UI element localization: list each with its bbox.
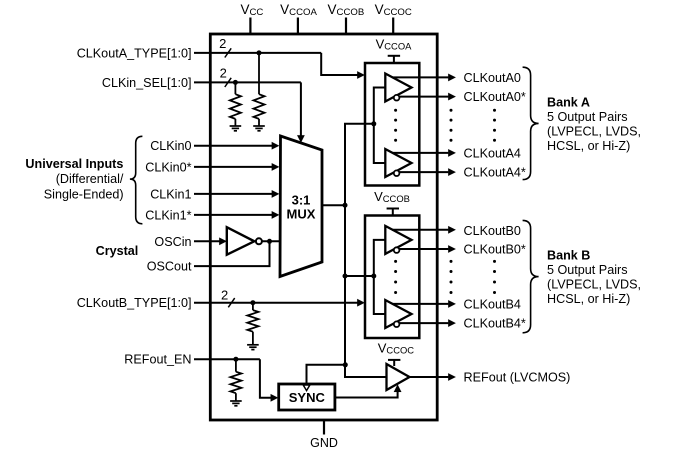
svg-text:SYNC: SYNC — [289, 390, 326, 405]
buffer B4 — [385, 300, 411, 328]
svg-text:5 Output Pairs: 5 Output Pairs — [547, 110, 628, 124]
svg-text:CLKoutA4: CLKoutA4 — [464, 146, 521, 160]
svg-text:OSCout: OSCout — [147, 260, 192, 274]
junction Bank B bus — [371, 274, 376, 279]
junction rail-SYNC — [343, 362, 348, 367]
wire CLKin1 — [194, 193, 273, 195]
wire Bank A input bus — [374, 88, 386, 164]
svg-text:(LVPECL, LVDS,: (LVPECL, LVDS, — [547, 278, 641, 292]
ground symbol — [247, 344, 259, 346]
pulldown resistor on CLKoutA_TYPE — [258, 53, 260, 94]
ellipsis Bank A buffers — [394, 109, 397, 112]
ground pin GND — [323, 420, 325, 435]
svg-text:3:1: 3:1 — [292, 192, 311, 207]
wire CLKoutA_TYPE elbow to Bank A — [321, 53, 358, 75]
wire CLKoutB0* — [399, 248, 448, 250]
svg-text:CLKoutA4*: CLKoutA4* — [464, 166, 526, 180]
ellipsis Bank A labels — [493, 109, 496, 112]
wire CLKoutA4 — [392, 152, 448, 154]
junction on CLKoutA_TYPE — [257, 50, 262, 55]
wire CLKoutB4* — [399, 322, 448, 324]
power pin VCCOB — [345, 18, 347, 35]
junction rail-MUX — [343, 203, 348, 208]
svg-text:GND: GND — [310, 436, 338, 450]
open arrowhead SYNC clock — [303, 385, 310, 391]
wire CLKin_SEL elbow to MUX select — [300, 82, 302, 136]
ground symbol — [230, 400, 242, 402]
junction on CLKoutB_TYPE — [250, 300, 255, 305]
svg-text:(Differential/: (Differential/ — [56, 172, 124, 186]
brace Bank A — [523, 67, 539, 179]
ellipsis Bank A arrows — [450, 109, 453, 112]
bus width 2 marker — [225, 48, 231, 57]
ellipsis Bank B arrows — [450, 260, 453, 263]
svg-text:CLKoutA0*: CLKoutA0* — [464, 90, 526, 104]
svg-text:HCSL, or Hi-Z): HCSL, or Hi-Z) — [547, 139, 630, 153]
pulldown resistor on CLKoutB_TYPE — [252, 303, 254, 310]
Bank A output buffer block — [365, 63, 419, 186]
wire clock rail — [345, 124, 387, 377]
junction oscillator node — [267, 239, 272, 244]
wire CLKin1* — [194, 214, 273, 216]
svg-text:CLKin0: CLKin0 — [150, 139, 191, 153]
svg-text:2: 2 — [220, 66, 227, 81]
svg-text:MUX: MUX — [287, 207, 316, 222]
wire CLKoutA0 — [392, 76, 448, 78]
mux 3:1 U1 — [280, 136, 322, 277]
svg-text:2: 2 — [219, 36, 226, 51]
buffer A4 — [385, 149, 411, 177]
bus width 2 marker — [225, 78, 231, 87]
wire MUX output — [322, 204, 345, 206]
svg-text:OSCin: OSCin — [154, 235, 191, 249]
wire CLKin_SEL — [194, 81, 301, 83]
svg-text:Universal Inputs: Universal Inputs — [25, 157, 123, 171]
brace Bank B — [523, 220, 539, 332]
brace Universal Inputs — [130, 136, 143, 224]
wire SYNC output to REFout buffer — [335, 391, 398, 398]
ellipsis Bank B labels — [493, 260, 496, 263]
buffer A0 — [385, 74, 411, 102]
wire CLKoutA0* — [399, 96, 448, 98]
ground symbol — [230, 125, 242, 127]
svg-text:CLKoutB4: CLKoutB4 — [464, 297, 521, 311]
svg-text:CLKoutB0: CLKoutB0 — [464, 224, 521, 238]
REFout buffer U3 — [387, 364, 410, 390]
svg-text:CLKoutB_TYPE[1:0]: CLKoutB_TYPE[1:0] — [77, 296, 192, 310]
wire REFout — [410, 376, 449, 378]
buffer B0 — [385, 226, 411, 254]
svg-text:CLKin_SEL[1:0]: CLKin_SEL[1:0] — [102, 76, 192, 90]
svg-text:CLKin0*: CLKin0* — [145, 160, 191, 174]
wire OSCin — [194, 240, 220, 242]
junction on REFout_EN — [233, 357, 238, 362]
wire CLKoutB4 — [392, 303, 448, 305]
power pin VCCOA — [297, 18, 299, 35]
svg-text:CLKin1: CLKin1 — [150, 187, 191, 201]
wire Bank B feed — [345, 275, 374, 277]
wire CLKoutA_TYPE — [194, 52, 321, 54]
ellipsis Bank B buffers — [394, 260, 397, 263]
svg-text:CLKin1*: CLKin1* — [145, 208, 191, 222]
svg-text:CLKoutA0: CLKoutA0 — [464, 71, 521, 85]
SYNC block — [279, 384, 335, 410]
svg-text:5 Output Pairs: 5 Output Pairs — [547, 263, 628, 277]
svg-text:Bank A: Bank A — [547, 95, 590, 109]
svg-text:CLKoutB0*: CLKoutB0* — [464, 242, 526, 256]
Bank B output buffer block — [365, 216, 419, 339]
wire CLKin0 — [194, 145, 273, 147]
svg-text:CLKoutA_TYPE[1:0]: CLKoutA_TYPE[1:0] — [77, 46, 192, 60]
svg-text:Single-Ended): Single-Ended) — [44, 187, 124, 201]
wire REFout_EN — [194, 358, 260, 360]
svg-text:HCSL, or Hi-Z): HCSL, or Hi-Z) — [547, 292, 630, 306]
ground symbol — [253, 125, 265, 127]
pulldown resistor on REFout_EN — [235, 359, 237, 372]
wire CLKin0* — [194, 166, 273, 168]
svg-text:REFout_EN: REFout_EN — [124, 353, 191, 367]
svg-text:Crystal: Crystal — [96, 244, 139, 258]
wire inverter output to MUX — [262, 240, 279, 242]
svg-text:Bank B: Bank B — [547, 248, 590, 262]
power pin VCC — [249, 18, 251, 35]
IC outline box — [210, 34, 437, 420]
wire CLKoutB_TYPE — [194, 302, 358, 304]
wire REFout_EN elbow to SYNC — [260, 359, 272, 398]
svg-text:(LVPECL, LVDS,: (LVPECL, LVDS, — [547, 124, 641, 138]
svg-text:CLKoutB4*: CLKoutB4* — [464, 317, 526, 331]
junction rail-BankB — [343, 274, 348, 279]
svg-text:2: 2 — [221, 288, 228, 303]
wire CLKoutA4* — [399, 171, 448, 173]
bus width 2 marker — [228, 298, 234, 307]
wire Bank B input bus — [374, 240, 386, 314]
power pin VCCOC — [392, 18, 394, 35]
junction Bank A bus — [371, 121, 376, 126]
wire rail to SYNC clock input — [307, 365, 346, 385]
oscillator inverter U2 — [227, 227, 255, 255]
wire CLKoutB0 — [392, 229, 448, 231]
pulldown resistor on CLKin_SEL — [234, 82, 236, 94]
svg-text:REFout (LVCMOS): REFout (LVCMOS) — [464, 370, 571, 384]
junction on CLKin_SEL — [233, 80, 238, 85]
wire OSCout — [194, 241, 270, 266]
